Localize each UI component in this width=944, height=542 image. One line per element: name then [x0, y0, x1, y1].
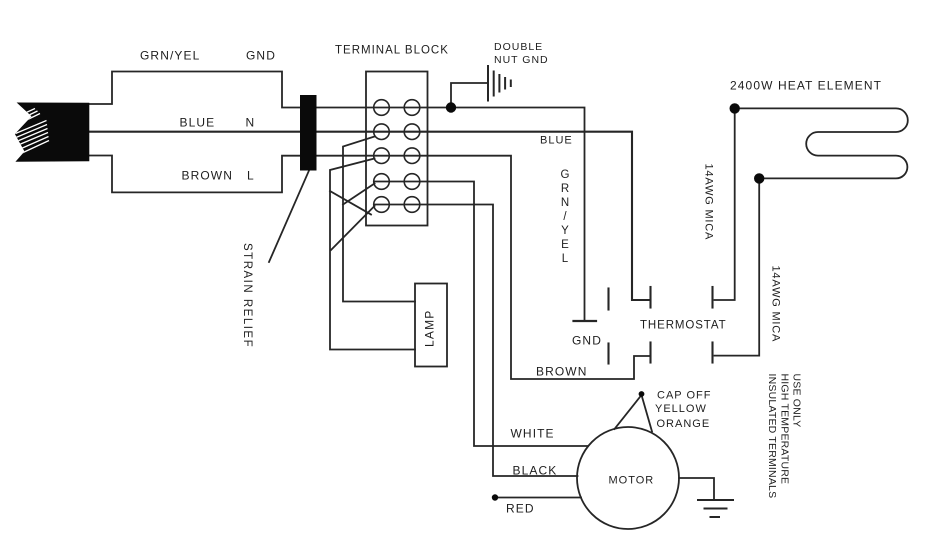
svg-text:14AWG MICA: 14AWG MICA [770, 266, 782, 343]
svg-text:GND: GND [246, 49, 276, 63]
svg-text:GND: GND [572, 334, 602, 348]
svg-text:CAP OFF: CAP OFF [657, 390, 711, 402]
svg-text:USE ONLY: USE ONLY [791, 374, 803, 428]
svg-text:STRAIN RELIEF: STRAIN RELIEF [241, 243, 253, 348]
svg-text:THERMOSTAT: THERMOSTAT [640, 320, 727, 332]
svg-text:N: N [561, 197, 569, 209]
svg-text:TERMINAL BLOCK: TERMINAL BLOCK [335, 45, 449, 57]
svg-text:E: E [561, 239, 569, 251]
svg-text:INSULATED TERMINALS: INSULATED TERMINALS [766, 374, 778, 499]
svg-text:LAMP: LAMP [423, 310, 437, 347]
svg-text:L: L [247, 169, 255, 183]
svg-text:NUT GND: NUT GND [494, 54, 549, 66]
svg-text:YELLOW: YELLOW [655, 403, 707, 415]
svg-text:R: R [561, 183, 569, 195]
svg-text:HIGH TEMPERATURE: HIGH TEMPERATURE [778, 374, 790, 485]
svg-text:RED: RED [506, 502, 535, 516]
svg-text:MOTOR: MOTOR [609, 475, 655, 487]
svg-text:GRN/YEL: GRN/YEL [140, 49, 200, 63]
svg-text:2400W HEAT ELEMENT: 2400W HEAT ELEMENT [730, 79, 882, 93]
svg-text:BLUE: BLUE [540, 135, 573, 147]
svg-text:N: N [246, 116, 256, 130]
svg-text:BLACK: BLACK [513, 464, 558, 478]
svg-text:DOUBLE: DOUBLE [494, 41, 543, 53]
svg-text:BLUE: BLUE [180, 116, 216, 130]
svg-text:BROWN: BROWN [182, 169, 234, 183]
svg-text:G: G [561, 169, 570, 181]
svg-text:L: L [562, 253, 569, 265]
svg-text:Y: Y [561, 225, 569, 237]
svg-text:BROWN: BROWN [536, 365, 588, 379]
svg-text:WHITE: WHITE [511, 427, 555, 441]
svg-text:ORANGE: ORANGE [657, 418, 711, 430]
svg-text:14AWG MICA: 14AWG MICA [703, 164, 715, 241]
